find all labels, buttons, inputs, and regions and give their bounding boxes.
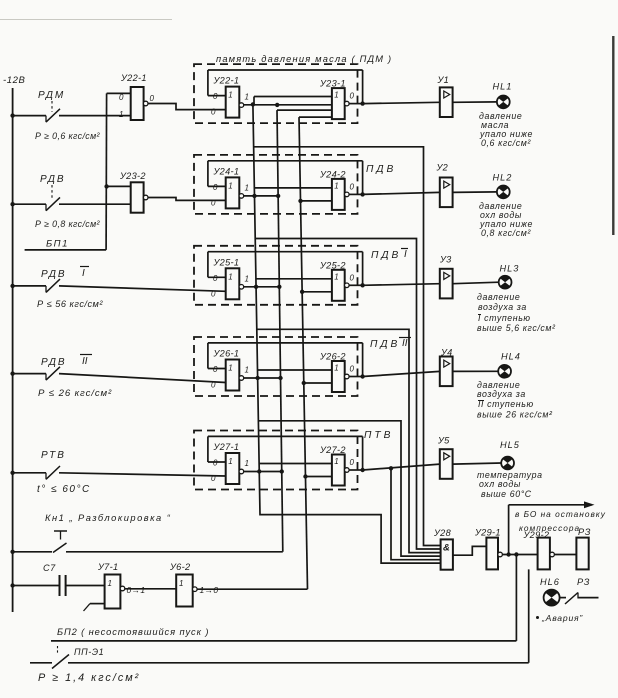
amplifier У1 — [437, 75, 453, 117]
svg-text:БП1: БП1 — [46, 239, 69, 250]
nand gate У27-1 (memory cell 5 set) — [211, 442, 249, 484]
nand gate У25-1 (memory cell 3 set) — [211, 257, 249, 299]
svg-text:Р ≤ 26 кгс/см²: Р ≤ 26 кгс/см² — [38, 388, 112, 399]
svg-text:1: 1 — [245, 274, 249, 283]
svg-text:У27-1: У27-1 — [213, 442, 240, 452]
svg-text:У22-1: У22-1 — [213, 76, 240, 86]
wire feedback loop cell 3 — [208, 252, 363, 286]
wire net L2 (Кн1 unlock line) — [10, 110, 282, 554]
wire feedback loop cell 2 — [208, 161, 363, 195]
svg-text:охл воды: охл воды — [479, 479, 521, 489]
svg-text:У6-2: У6-2 — [169, 562, 190, 572]
net label ПТВ — [364, 430, 393, 441]
wire net V1 (cell outputs chain down) — [253, 104, 441, 563]
svg-text:1: 1 — [334, 364, 338, 373]
svg-text:НL6: НL6 — [540, 577, 560, 587]
one-shot У6-2 — [169, 562, 218, 607]
wire row5 output tap to У28 column — [389, 466, 441, 560]
svg-text:У2: У2 — [436, 163, 449, 173]
svg-text:„Авария”: „Авария” — [541, 613, 583, 623]
wire reset input to У24-2 — [298, 199, 332, 203]
lamp HL6 — [544, 590, 560, 606]
wire cell 4 output to amplifier У4 — [349, 371, 440, 378]
wire У26-1 output to У26-2 input — [244, 370, 332, 380]
wire jog row2 to У28 column — [255, 239, 440, 550]
contact РТВ (water temperature switch) — [37, 450, 91, 495]
net БП1 — [25, 239, 107, 250]
annotation lamp HL2 — [479, 201, 533, 238]
amplifier У3 — [439, 255, 453, 299]
wire reset input to У27-2 — [303, 474, 332, 478]
wire С7 row — [10, 583, 104, 587]
svg-text:РДМ: РДМ — [38, 90, 65, 101]
svg-text:воздуха за: воздуха за — [477, 389, 526, 399]
svg-text:У26-1: У26-1 — [213, 349, 240, 359]
wire jog row3 to У28 column — [257, 329, 441, 552]
svg-text:1: 1 — [228, 91, 232, 100]
svg-text:1: 1 — [334, 181, 338, 190]
wire У22-1 output to У23-1 input — [244, 97, 332, 108]
contact РДВ (water pressure switch) — [35, 174, 101, 229]
svg-text:выше 5,6 кгс/см²: выше 5,6 кгс/см² — [477, 323, 556, 333]
contact РДВ-I (1st stage air pressure switch) — [37, 267, 103, 310]
svg-text:выше 60°С: выше 60°С — [481, 489, 532, 499]
svg-text:ПТВ: ПТВ — [364, 430, 393, 441]
wire feedback loop cell 5 — [208, 436, 363, 470]
svg-text:в БО на остановку: в БО на остановку — [515, 509, 606, 519]
svg-text:1: 1 — [179, 579, 183, 588]
svg-text:0: 0 — [211, 198, 216, 207]
svg-text:1: 1 — [245, 366, 249, 375]
svg-text:1: 1 — [245, 459, 249, 468]
contact ПП-Э1 — [52, 646, 104, 669]
inverter У29-1 — [474, 528, 502, 570]
svg-text:0: 0 — [150, 94, 155, 103]
wire row3 input — [10, 284, 225, 292]
lamp HL3 — [499, 276, 512, 289]
svg-text:ПДВ: ПДВ — [366, 164, 396, 175]
wire row4 input — [10, 371, 225, 382]
svg-text:0: 0 — [350, 182, 355, 191]
inverter У22-1 (input gate row1) — [119, 73, 155, 120]
wire row1 input — [10, 113, 130, 117]
net label ПДВ ІІ — [370, 338, 411, 351]
svg-text:HL3: HL3 — [500, 264, 520, 274]
svg-text:0: 0 — [350, 365, 355, 374]
wire jog row4 to У28 column — [258, 421, 440, 556]
wire БП2 riser to У29-2 — [514, 552, 518, 641]
svg-text:Р ≥ 1,4 кгс/см²: Р ≥ 1,4 кгс/см² — [38, 672, 140, 684]
relay РЗ — [576, 527, 591, 569]
svg-text:1: 1 — [245, 93, 249, 102]
svg-text:У1: У1 — [437, 75, 450, 85]
lamp HL5 — [501, 457, 514, 470]
nand gate У24-1 (memory cell 2 set) — [211, 166, 249, 208]
svg-text:І ступенью: І ступенью — [478, 313, 531, 323]
amplifier У5 — [437, 436, 453, 479]
svg-text:У29-1: У29-1 — [474, 528, 501, 538]
wire У28 output to У29-1 — [453, 546, 487, 555]
svg-text:С7: С7 — [43, 563, 56, 573]
wire cell 1 output to amplifier У1 — [349, 101, 440, 105]
wire У29-2 to РЗ — [554, 554, 576, 556]
svg-text:память давления масла ( ПДМ: память давления масла ( ПДМ ) — [216, 54, 392, 64]
wire У5 to HL5 — [453, 463, 502, 464]
wire У29-1 to У29-2 — [502, 552, 537, 556]
capacitor С7 — [43, 563, 66, 596]
wire У3 to HL3 — [453, 282, 499, 284]
svg-text:0: 0 — [213, 274, 218, 283]
svg-text:У25-1: У25-1 — [213, 257, 240, 267]
svg-text:ПДВ: ПДВ — [371, 250, 401, 261]
svg-text:У5: У5 — [437, 436, 450, 446]
wire feedback loop cell 4 — [208, 343, 363, 377]
button Кн1 Разблокировка — [45, 513, 171, 553]
wire cell 3 output to amplifier У3 — [349, 283, 440, 287]
svg-text:1: 1 — [228, 181, 232, 190]
svg-text:выше 26 кгс/см²: выше 26 кгс/см² — [477, 410, 553, 420]
wire У4 to HL4 — [453, 370, 499, 372]
svg-text:БП2 ( несостоявшийся пуск ): БП2 ( несостоявшийся пуск ) — [57, 627, 209, 637]
svg-text:HL1: HL1 — [493, 82, 513, 92]
net label ПДВ — [366, 164, 396, 175]
svg-text:РЗ: РЗ — [578, 527, 591, 537]
wire У25-1 output to У25-2 input — [244, 279, 332, 289]
svg-text:давление: давление — [477, 292, 520, 302]
annotation lamp HL1 — [479, 111, 533, 148]
svg-text:У24-1: У24-1 — [213, 166, 240, 176]
wire row2 input — [10, 202, 130, 206]
wire reset input to У23-1 — [277, 110, 332, 117]
wire У7-1 second input stub — [84, 604, 105, 611]
svg-text:І: І — [82, 268, 85, 279]
amplifier У4 — [440, 348, 453, 387]
svg-text:1: 1 — [228, 272, 232, 281]
dashed box memory cell 5 — [194, 431, 358, 490]
svg-text:0: 0 — [211, 381, 216, 390]
svg-text:ІІ ступенью: ІІ ступенью — [478, 399, 534, 409]
contact РЗ (alarm relay contact) — [560, 577, 599, 604]
svg-text:ПДВ: ПДВ — [370, 339, 400, 350]
svg-text:1: 1 — [334, 272, 338, 281]
lamp HL2 — [497, 186, 510, 199]
wire У1 to HL1 — [453, 101, 498, 103]
wire У2 to HL2 — [453, 191, 498, 194]
annotation lamp HL3 — [477, 292, 556, 333]
wire ПП-Э1 riser to У29-2 — [528, 569, 530, 662]
wire net L3 (У6-2 reset line up) — [197, 117, 307, 589]
lamp HL1 — [497, 96, 510, 109]
svg-text:0: 0 — [119, 93, 124, 102]
svg-text:1: 1 — [228, 457, 232, 466]
svg-text:У7-1: У7-1 — [97, 562, 118, 572]
svg-text:У3: У3 — [439, 255, 452, 265]
svg-text:РДВ: РДВ — [40, 174, 66, 185]
wire feedback loop cell 1 — [208, 70, 363, 104]
nand gate У26-1 (memory cell 4 set) — [211, 349, 249, 391]
svg-text:0: 0 — [213, 365, 218, 374]
svg-text:HL5: HL5 — [500, 440, 520, 450]
nand gate У26-2 (memory cell 4 out) — [319, 352, 355, 393]
nand gate У23-1 (memory cell 1 out) — [319, 79, 355, 120]
amplifier У2 — [436, 163, 453, 208]
wire reset input to У26-2 — [302, 381, 332, 385]
svg-text:0: 0 — [211, 474, 216, 483]
svg-text:РЗ: РЗ — [577, 577, 590, 587]
svg-text:0,6 кгс/см²: 0,6 кгс/см² — [481, 138, 531, 148]
net БП2 (failed start) — [51, 627, 516, 641]
svg-text:Р ≥ 0,6 кгс/см²: Р ≥ 0,6 кгс/см² — [35, 131, 101, 141]
svg-text:1: 1 — [119, 110, 123, 119]
nand gate У22-1 (memory cell 1 set) — [211, 76, 249, 118]
svg-text:1: 1 — [334, 457, 338, 466]
svg-text:У23-2: У23-2 — [119, 171, 146, 181]
nand gate У24-2 (memory cell 2 out) — [319, 169, 355, 210]
svg-text:0→1: 0→1 — [127, 585, 146, 595]
nand gate У25-2 (memory cell 3 out) — [319, 260, 355, 301]
wire reset input to У25-2 — [300, 290, 332, 294]
scan artifact vertical right edge — [612, 36, 614, 235]
svg-text:-12В: -12В — [3, 75, 26, 86]
contact РДВ-II (2nd stage air pressure switch) — [38, 355, 112, 400]
annotation lamp HL4 — [477, 380, 553, 420]
wire У24-1 output to У24-2 input — [244, 188, 332, 198]
nand gate У27-2 (memory cell 5 out) — [319, 445, 355, 486]
wire ПП-Э1 row — [30, 662, 529, 664]
svg-text:У28: У28 — [433, 528, 452, 538]
contact РДМ (oil pressure switch) — [35, 90, 101, 141]
svg-text:РТВ: РТВ — [41, 450, 66, 461]
svg-text:1: 1 — [245, 183, 249, 192]
svg-text:0,8 кгс/см²: 0,8 кгс/см² — [481, 228, 531, 238]
wire У23-2 output to memory box2 — [148, 198, 226, 201]
wire -12V bus vertical — [12, 88, 14, 612]
svg-text:1: 1 — [334, 91, 338, 100]
wire branch to БО arrow — [509, 501, 606, 554]
svg-text:1: 1 — [228, 364, 232, 373]
svg-text:&: & — [443, 543, 450, 554]
svg-text:HL4: HL4 — [501, 352, 521, 362]
lamp HL4 — [498, 365, 511, 378]
svg-text:ІІ: ІІ — [82, 356, 88, 367]
net label ПДВ І — [371, 249, 408, 262]
one-shot У7-1 — [97, 562, 145, 609]
wire jog row1 to У28 column — [254, 147, 441, 546]
svg-text:t° ≤ 60°С: t° ≤ 60°С — [37, 484, 91, 495]
dashed box memory cell 1 — [194, 64, 358, 123]
svg-text:0: 0 — [211, 108, 216, 117]
svg-text:HL2: HL2 — [493, 172, 513, 182]
svg-text:воздуха за: воздуха за — [478, 302, 527, 312]
svg-text:0: 0 — [213, 183, 218, 192]
svg-text:0: 0 — [350, 458, 355, 467]
label Авария — [536, 613, 583, 623]
svg-text:Р ≤ 56 кгс/см²: Р ≤ 56 кгс/см² — [37, 299, 103, 309]
inverter У23-2 (input gate row2) — [119, 171, 148, 213]
svg-text:ІІ: ІІ — [402, 338, 408, 349]
svg-text:0: 0 — [213, 459, 218, 468]
svg-text:1: 1 — [108, 579, 112, 588]
svg-text:0: 0 — [213, 92, 218, 101]
wire cell 2 output to amplifier У2 — [349, 192, 440, 196]
wire У22-1 output to memory box1 — [148, 104, 226, 110]
wire У7-1 to У6-2 — [125, 588, 176, 590]
svg-text:Р ≥ 0,8 кгс/см²: Р ≥ 0,8 кгс/см² — [35, 219, 101, 229]
svg-text:0: 0 — [350, 92, 355, 101]
svg-text:ПП-Э1: ПП-Э1 — [74, 647, 104, 657]
dashed box memory cell 4 — [194, 337, 358, 396]
scan artifact line top left — [0, 19, 172, 21]
svg-text:Кн1 „ Разблокировка “: Кн1 „ Разблокировка “ — [45, 513, 171, 523]
wire row5 input — [10, 471, 225, 476]
wire cell 5 output to amplifier У5 — [349, 464, 440, 472]
wire БП1 to input gates — [104, 93, 130, 250]
svg-text:РДВ: РДВ — [41, 269, 67, 280]
inverter У29-2 — [523, 530, 555, 569]
and gate У28 — [433, 528, 453, 570]
dashed box memory cell 2 — [194, 155, 358, 214]
dashed box memory cell 3 — [194, 246, 358, 305]
wire У27-1 output to У27-2 input — [244, 464, 332, 474]
annotation lamp HL5 — [477, 470, 543, 499]
svg-text:0: 0 — [350, 273, 355, 282]
svg-text:0: 0 — [211, 289, 216, 298]
svg-text:І: І — [404, 249, 407, 260]
svg-text:У22-1: У22-1 — [120, 73, 147, 83]
svg-text:РДВ: РДВ — [41, 357, 67, 368]
